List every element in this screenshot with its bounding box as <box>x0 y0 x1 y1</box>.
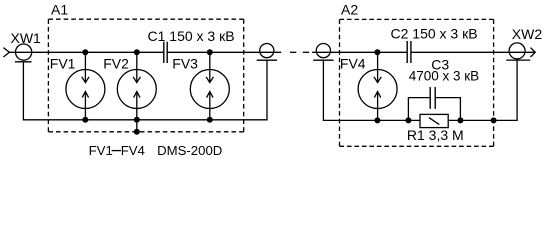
svg-text:FV4: FV4 <box>121 143 145 158</box>
node: R1/C3 right junction <box>457 117 463 123</box>
connector XW2 <box>506 43 535 60</box>
node: R1/C3 left junction <box>405 117 411 123</box>
capacitor C3 <box>430 87 435 109</box>
wire: main line from XW1 to C1 <box>9 51 163 53</box>
node: enclosure A2 junction <box>491 117 497 123</box>
node: FV4 top junction <box>374 49 380 55</box>
node: enclosure A1 junction <box>134 129 140 135</box>
svg-text:XW2: XW2 <box>512 26 543 42</box>
coupler right half (coax plug) <box>313 44 333 61</box>
svg-text:C2 150 x 3 кВ: C2 150 x 3 кВ <box>391 26 478 42</box>
capacitor C1 <box>164 42 167 63</box>
wire: C3 bypass loop right <box>435 98 460 121</box>
resistor R1 <box>420 114 448 127</box>
svg-text:DMS-200D: DMS-200D <box>157 143 222 158</box>
svg-text:C1 150 x 3 кВ: C1 150 x 3 кВ <box>148 28 235 44</box>
svg-text:XW1: XW1 <box>11 30 42 46</box>
node: FV1 top junction <box>82 49 88 55</box>
svg-text:FV1: FV1 <box>50 55 76 71</box>
coupler left half (coax socket) <box>257 44 277 61</box>
svg-text:FV3: FV3 <box>172 55 198 71</box>
arrester FV2 <box>117 52 156 120</box>
node: FV4 bus junction <box>374 117 380 123</box>
node: FV2 bus junction <box>134 117 140 123</box>
wire: main line from C1 to left coupler <box>167 51 281 53</box>
box A1 (dashed enclosure) <box>48 18 243 20</box>
svg-text:A2: A2 <box>341 2 358 18</box>
node: FV3 top junction <box>207 49 213 55</box>
connector XW1 <box>3 44 31 62</box>
wire: main line from C2 to XW2 <box>411 51 535 53</box>
box A2 (dashed enclosure) <box>340 18 494 20</box>
wire: right ground bus (right coupler down, along bottom, up to XW2) <box>323 60 517 120</box>
svg-text:A1: A1 <box>51 1 68 17</box>
wire: left ground bus (XW1 shield down, along bottom, up to left coupler) <box>23 60 267 120</box>
node: FV3 bus junction <box>207 117 213 123</box>
svg-text:4700 x 3 кВ: 4700 x 3 кВ <box>409 68 479 83</box>
svg-text:FV4: FV4 <box>340 56 366 72</box>
arrester FV3 <box>190 52 229 120</box>
arrester FV1 <box>66 52 105 120</box>
wire: main line from right coupler to C2 <box>312 51 407 53</box>
wire: dashed detachable link between couplers <box>290 51 296 53</box>
arrester FV4 <box>358 52 397 120</box>
wire: FV2 bus to enclosure A1 <box>136 120 138 132</box>
svg-text:R1 3,3 М: R1 3,3 М <box>407 127 464 143</box>
svg-text:FV2: FV2 <box>103 55 129 71</box>
wire: C3 bypass loop left <box>408 98 430 121</box>
svg-text:FV1: FV1 <box>89 143 113 158</box>
capacitor C2 <box>407 41 411 63</box>
node: FV2 top junction <box>134 49 140 55</box>
node: FV1 bus junction <box>82 117 88 123</box>
